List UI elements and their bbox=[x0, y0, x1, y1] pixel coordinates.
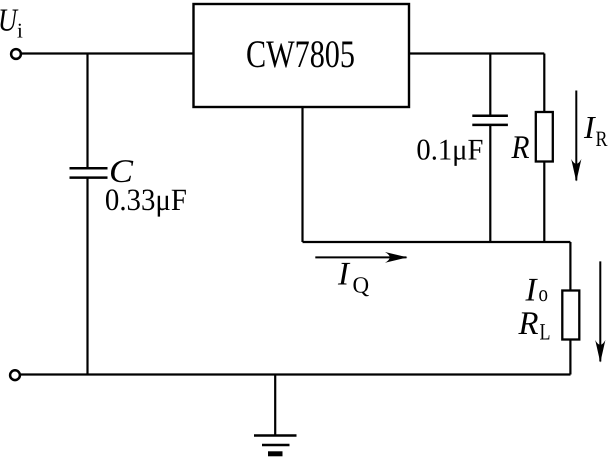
svg-text:I: I bbox=[583, 109, 596, 145]
svg-text:U: U bbox=[0, 1, 19, 37]
svg-text:0.33μF: 0.33μF bbox=[105, 182, 187, 217]
svg-text:Q: Q bbox=[353, 273, 370, 298]
svg-text:L: L bbox=[540, 320, 551, 346]
svg-text:I: I bbox=[337, 256, 351, 292]
svg-text:R: R bbox=[596, 126, 608, 151]
svg-text:i: i bbox=[17, 19, 23, 43]
svg-text:o: o bbox=[539, 281, 549, 306]
svg-text:R: R bbox=[518, 306, 539, 342]
svg-text:0.1μF: 0.1μF bbox=[416, 134, 483, 167]
svg-text:CW7805: CW7805 bbox=[246, 33, 355, 76]
svg-text:I: I bbox=[525, 273, 539, 309]
svg-text:R: R bbox=[511, 130, 530, 166]
